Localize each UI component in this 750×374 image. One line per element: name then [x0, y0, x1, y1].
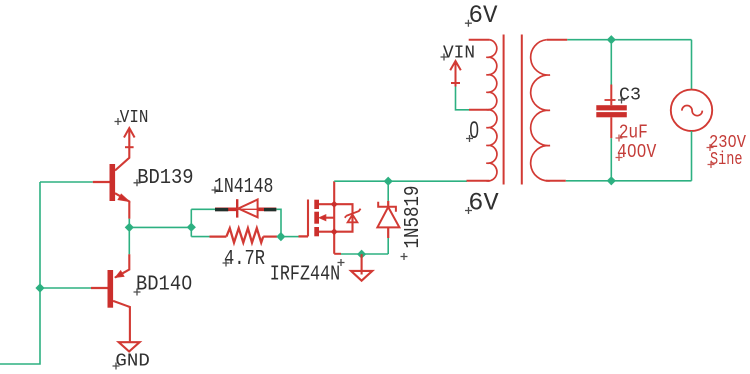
transistor Q2 BD140: [91, 254, 130, 341]
anchor cross 230V: [707, 144, 714, 151]
wire source row: [341, 238, 389, 254]
anchor cross 400V: [616, 154, 623, 161]
transistor Q1 BD139: [93, 129, 130, 219]
anchor cross BD139: [134, 179, 141, 186]
svg-text:BD140: BD140: [136, 273, 192, 296]
anchor cross 4.7R: [223, 260, 230, 267]
power VIN arrow left: [124, 128, 135, 147]
node top cap: [607, 35, 616, 44]
node mosfet drain: [331, 201, 338, 208]
transformer T1 primary lower winding: [486, 110, 497, 181]
wire RD left vertical: [190, 209, 192, 236]
anchor cross Sine: [708, 161, 715, 168]
wire secondary top row: [567, 39, 691, 41]
source V1 sine: [671, 90, 712, 131]
anchor cross 6V top: [465, 20, 472, 27]
svg-text:IRFZ44N: IRFZ44N: [270, 264, 340, 287]
svg-text:6V: 6V: [469, 1, 498, 30]
svg-text:C3: C3: [619, 85, 641, 106]
wire left trunk: [0, 182, 40, 364]
anchor cross BD140: [134, 289, 141, 296]
node mosfet source: [331, 228, 338, 235]
wire to RD node: [129, 226, 191, 228]
anchor cross C3: [618, 97, 625, 104]
ground arrow mosfet: [351, 254, 372, 281]
svg-text:4.7R: 4.7R: [224, 248, 265, 271]
transistor Q3 IRFZ44N mosfet: [299, 181, 361, 254]
node emitters: [125, 223, 134, 232]
zero dot patches: [473, 127, 476, 132]
node bottom cap: [607, 176, 616, 185]
wire diode row right: [276, 209, 281, 236]
anchor cross 6V bottom: [465, 207, 472, 214]
wire emitter node vertical: [128, 219, 130, 255]
svg-text:400V: 400V: [617, 141, 657, 163]
wire secondary bottom row: [566, 180, 692, 182]
power VIN arrow right: [450, 61, 461, 87]
wire drain row: [334, 180, 467, 182]
wire sine top: [691, 40, 693, 90]
transformer T1 secondary bottom lead: [546, 180, 566, 182]
anchor cross GND: [113, 363, 120, 370]
anchor cross 2uF: [616, 135, 623, 142]
wire gate: [285, 236, 299, 238]
diode D1 1N4148: [215, 199, 276, 217]
anchor cross VIN left: [115, 118, 122, 125]
node source row: [357, 250, 366, 259]
anchor cross 0: [466, 135, 473, 142]
wire BD140 base: [40, 287, 91, 289]
transformer T1 secondary top lead: [547, 39, 568, 41]
node RD left: [187, 223, 196, 232]
wire source red stub: [334, 253, 341, 255]
ground arrow BD140: [119, 342, 140, 351]
wire diode row left: [191, 208, 215, 210]
node base junction: [35, 283, 44, 292]
svg-text:1N5819: 1N5819: [402, 186, 425, 249]
svg-text:6V: 6V: [468, 189, 498, 218]
svg-text:BD139: BD139: [137, 167, 193, 190]
wire sine bottom: [691, 131, 693, 181]
wire center tap: [456, 87, 470, 110]
wire BD139 base: [40, 181, 93, 183]
transformer T1 primary top lead: [469, 39, 490, 41]
wire to 1N5819: [387, 181, 389, 201]
wire resistor row left: [191, 236, 209, 238]
node resistor right: [276, 232, 285, 241]
resistor R1 4.7R: [210, 228, 278, 242]
transformer T1 secondary winding: [531, 40, 550, 181]
svg-text:Sine: Sine: [710, 149, 743, 170]
anchor cross VIN right: [441, 54, 448, 61]
node drain row: [384, 177, 393, 186]
svg-text:VIN: VIN: [443, 43, 475, 64]
anchor cross 1N4148: [212, 187, 219, 194]
wire cap top: [610, 40, 612, 85]
diode D3 1N5819: [377, 201, 399, 238]
transformer T1 center tap lead: [469, 109, 490, 111]
svg-text:GND: GND: [115, 351, 149, 372]
capacitor C3: [596, 85, 627, 139]
transformer T1 core: [504, 35, 522, 185]
svg-text:VIN: VIN: [120, 107, 149, 128]
transformer T1 primary upper winding: [486, 40, 497, 110]
anchor cross 1N5819: [401, 253, 408, 260]
anchor cross IRFZ44N: [338, 259, 345, 266]
transformer T1 primary bottom lead: [467, 180, 490, 182]
svg-text:1N4148: 1N4148: [214, 176, 273, 199]
wire cap bottom: [610, 138, 612, 181]
